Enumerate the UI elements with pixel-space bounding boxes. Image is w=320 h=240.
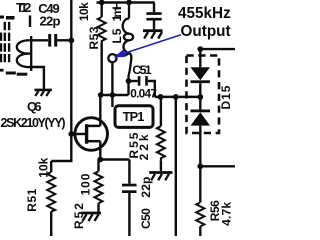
ground (transformer) xyxy=(35,90,52,96)
svg-text:100: 100 xyxy=(78,173,92,195)
svg-text:TP1: TP1 xyxy=(123,109,145,124)
inductor L5 xyxy=(110,0,133,80)
annotation 455kHz Output xyxy=(114,5,232,58)
diode D15b (cathode up) xyxy=(199,97,201,110)
wire node B down to bottom edge xyxy=(175,97,177,236)
wire bottom right out xyxy=(197,163,235,169)
node drain line xyxy=(98,78,132,98)
resistor R53 xyxy=(77,0,106,95)
winding upper stub dash xyxy=(29,15,31,27)
svg-text:L5: L5 xyxy=(110,28,124,43)
node junction C49/gate line xyxy=(68,37,74,43)
svg-text:R53: R53 xyxy=(87,26,101,49)
svg-text:Output: Output xyxy=(181,23,231,40)
svg-text:1mH: 1mH xyxy=(110,1,124,22)
wire gate to R51 xyxy=(51,134,71,161)
svg-text:22p: 22p xyxy=(40,14,61,29)
svg-text:Q6: Q6 xyxy=(27,99,42,114)
transistor Q6 xyxy=(1,95,108,160)
wire winding top lead to C49 xyxy=(31,39,48,41)
resistor R52 xyxy=(72,160,103,230)
ground (R55) xyxy=(149,173,172,181)
dashed package box xyxy=(187,56,220,134)
core bottom dash marks xyxy=(0,69,4,72)
svg-text:R52: R52 xyxy=(72,203,86,229)
resistor R55 xyxy=(127,97,165,171)
svg-text:0.047: 0.047 xyxy=(130,86,157,100)
capacitor C50 xyxy=(122,160,153,237)
svg-text:C50: C50 xyxy=(139,208,153,229)
wire top rail xyxy=(97,1,155,3)
svg-text:C51: C51 xyxy=(132,63,151,77)
wire winding bottom lead xyxy=(31,67,44,89)
diode D15a (cathode down) xyxy=(191,67,211,80)
capacitor C49 xyxy=(38,1,71,47)
node B line xyxy=(155,94,203,100)
svg-text:D15: D15 xyxy=(219,85,233,109)
diode pair D15 xyxy=(187,46,236,166)
secondary winding xyxy=(17,36,31,71)
core dashed line columns xyxy=(1,22,9,62)
svg-text:10k: 10k xyxy=(77,2,91,21)
svg-text:4.7k: 4.7k xyxy=(220,202,234,226)
svg-text:455kHz: 455kHz xyxy=(178,5,231,22)
wire gate bias vertical xyxy=(70,0,72,134)
svg-text:2SK210Y(YY): 2SK210Y(YY) xyxy=(1,116,66,130)
capacitor C52 (unlabeled, top right) xyxy=(146,3,161,30)
svg-text:22k: 22k xyxy=(137,134,151,160)
svg-text:T12: T12 xyxy=(16,0,31,15)
wire source node xyxy=(97,157,129,163)
ground (R52) xyxy=(81,213,101,221)
transformer T12 xyxy=(0,0,31,76)
capacitor C51 xyxy=(129,63,158,100)
test point circle xyxy=(108,54,116,62)
ground (top right) xyxy=(143,31,163,39)
resistor R51 xyxy=(25,157,55,236)
resistor R56 xyxy=(196,166,233,236)
test point TP1 xyxy=(112,95,153,127)
svg-text:R51: R51 xyxy=(25,188,39,211)
wire test point down xyxy=(111,63,113,96)
top feed wire and junction xyxy=(197,46,203,52)
core top dash mark xyxy=(6,16,15,20)
